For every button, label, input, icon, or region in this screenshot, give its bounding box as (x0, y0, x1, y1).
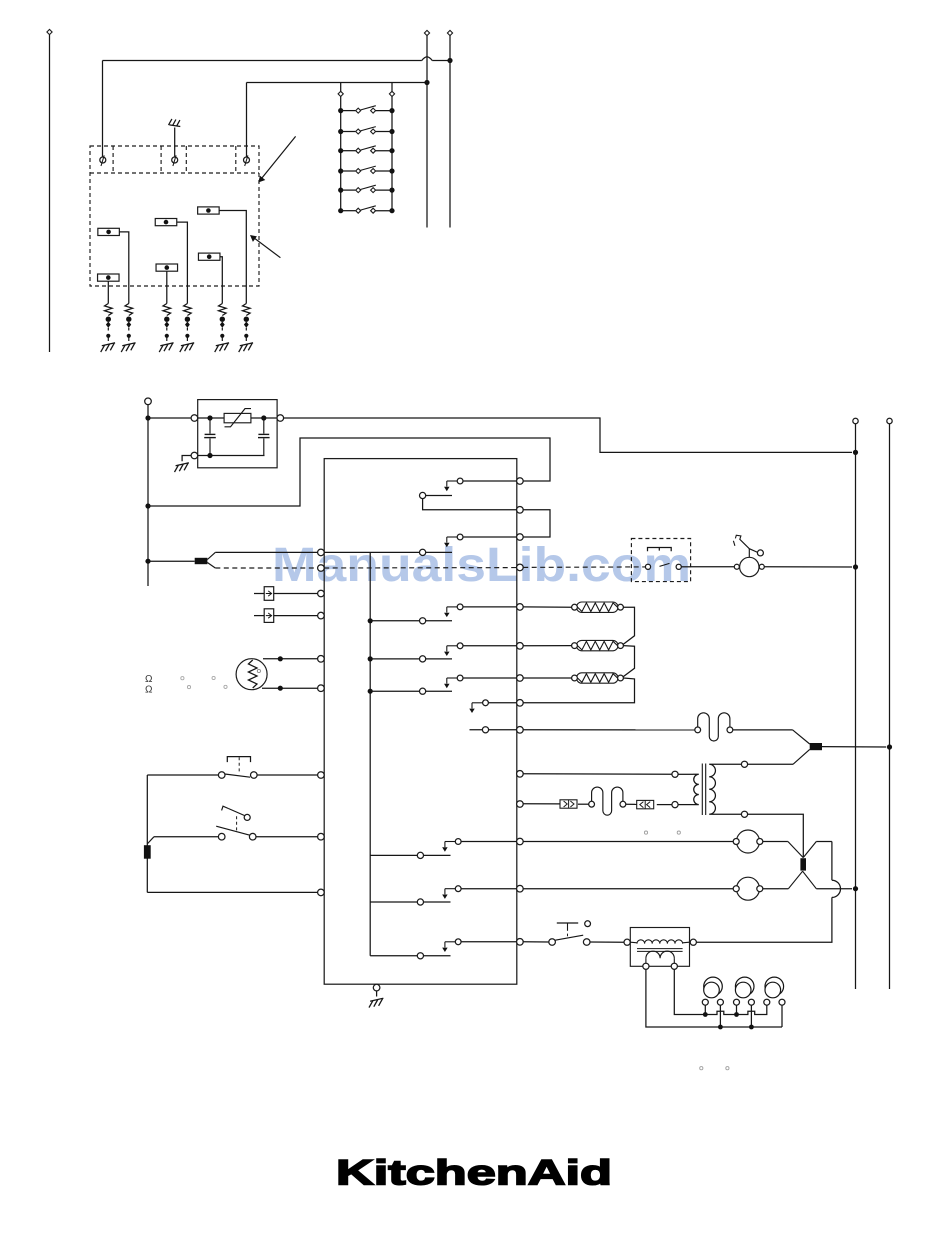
svg-text:ManualsLib.com: ManualsLib.com (272, 539, 691, 592)
svg-text:Ω: Ω (145, 674, 153, 685)
svg-text:KitchenAid: KitchenAid (336, 1154, 612, 1193)
svg-text:Ω: Ω (145, 685, 153, 696)
